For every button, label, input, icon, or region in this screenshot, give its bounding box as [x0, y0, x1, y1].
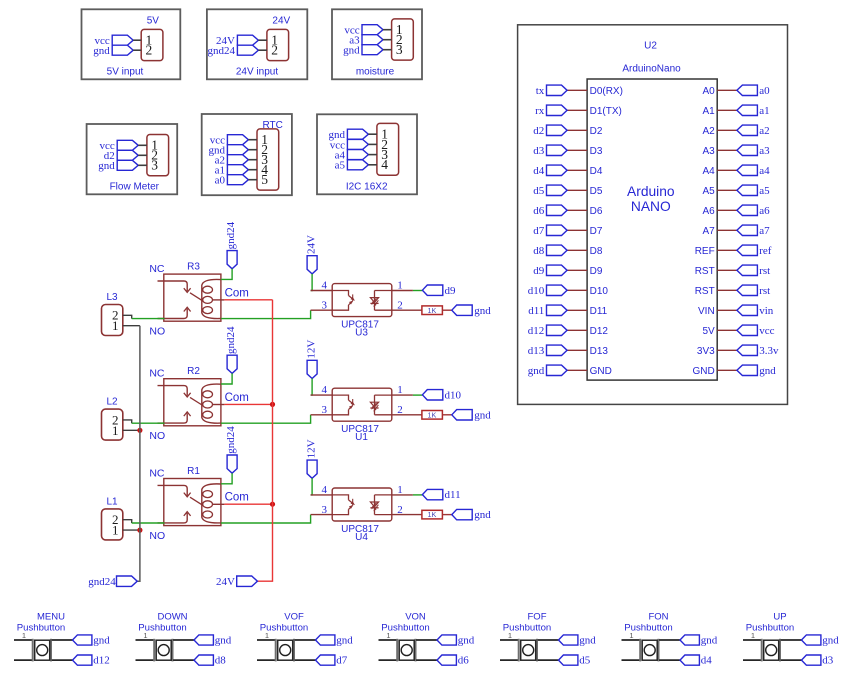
svg-text:d13: d13	[528, 345, 545, 357]
wire pin D5	[567, 189, 587, 191]
svg-text:VOF: VOF	[284, 611, 304, 622]
wire 1K to gnd	[442, 414, 451, 416]
wire pin 4	[248, 169, 257, 171]
wire pin D9	[567, 269, 587, 271]
pushbutton VON contacts	[396, 639, 398, 662]
wire pin REF	[717, 249, 737, 251]
transistor inside U3	[332, 291, 348, 296]
pushbutton DOWN body	[156, 640, 171, 660]
svg-text:d4: d4	[533, 165, 545, 177]
wire pin 2	[258, 49, 267, 51]
wire FOF left bottom	[500, 659, 519, 661]
svg-text:gnd: gnd	[215, 635, 232, 647]
net flag a1	[227, 165, 248, 175]
wire 12V to opto pin4	[311, 478, 313, 495]
svg-text:gnd: gnd	[474, 305, 491, 317]
svg-text:1: 1	[397, 484, 403, 496]
net flag d6	[547, 205, 568, 215]
svg-text:A3: A3	[702, 146, 715, 157]
net flag 12V	[307, 360, 317, 378]
svg-text:3: 3	[322, 404, 328, 416]
svg-text:12V: 12V	[306, 340, 318, 359]
pushbutton UP body	[764, 640, 779, 660]
svg-text:gnd: gnd	[474, 409, 491, 421]
net flag d9	[547, 265, 568, 275]
wire Com to 24V bus	[224, 299, 272, 301]
wire pin 5	[248, 179, 257, 181]
net flag 3.3v	[737, 345, 758, 355]
wire FON left bottom	[622, 659, 641, 661]
svg-text:L3: L3	[106, 292, 118, 303]
wire pin 3	[383, 49, 392, 51]
relay R3 box	[164, 274, 221, 321]
relay R2 moving contact	[190, 397, 202, 405]
net flag 24V bottom	[237, 576, 258, 586]
svg-text:24V: 24V	[272, 16, 290, 27]
relay R2 NO contact	[158, 413, 188, 423]
wire pin D2	[567, 129, 587, 131]
net flag d13	[547, 345, 568, 355]
wire VON left top	[379, 639, 398, 641]
wire pin D12	[567, 329, 587, 331]
wire pin RST	[717, 289, 737, 291]
svg-text:4: 4	[322, 384, 328, 396]
wire pin D13	[567, 349, 587, 351]
svg-text:rx: rx	[535, 105, 545, 117]
LED inside U3	[374, 291, 376, 311]
svg-text:d11: d11	[528, 305, 544, 317]
wire VON left bottom	[379, 659, 398, 661]
svg-text:a3: a3	[759, 145, 770, 157]
wire opto pin1 to d11	[413, 494, 423, 496]
net flag gnd	[452, 410, 472, 420]
net flag gnd24	[227, 455, 237, 473]
pushbutton DOWN button circle	[158, 645, 169, 656]
svg-text:d9: d9	[445, 285, 457, 297]
pushbutton VON button circle	[401, 645, 412, 656]
svg-text:d11: d11	[445, 489, 461, 501]
wire MENU right top	[52, 639, 73, 641]
net flag gnd	[547, 365, 568, 375]
svg-text:D1(TX): D1(TX)	[590, 106, 622, 117]
wire pin 1	[138, 144, 147, 146]
svg-text:D0(RX): D0(RX)	[590, 86, 623, 97]
svg-text:5V: 5V	[147, 16, 160, 27]
net flag gnd	[347, 129, 368, 139]
svg-text:Arduino: Arduino	[627, 184, 675, 199]
svg-text:U2: U2	[644, 40, 657, 51]
wire pin A2	[717, 129, 737, 131]
wire to relay NO	[132, 422, 165, 424]
wire pin D7	[567, 229, 587, 231]
pin 1 of U3	[392, 290, 413, 292]
svg-text:D13: D13	[590, 346, 609, 357]
net flag gnd	[452, 509, 472, 519]
wire opto pin1 to d10	[413, 394, 423, 396]
svg-text:gnd: gnd	[759, 365, 776, 377]
svg-text:a0: a0	[759, 85, 770, 97]
svg-text:12V: 12V	[306, 439, 318, 458]
svg-text:d2: d2	[533, 125, 544, 137]
svg-text:1: 1	[22, 631, 26, 640]
wire UP right top	[781, 639, 802, 641]
net flag gnd	[117, 160, 138, 170]
net flag vin	[737, 305, 758, 315]
net flag d5	[547, 185, 568, 195]
svg-text:d7: d7	[533, 225, 545, 237]
pushbutton FOF button circle	[523, 645, 534, 656]
wire pin A5	[717, 189, 737, 191]
wire pin 5V	[717, 329, 737, 331]
svg-text:D10: D10	[590, 286, 609, 297]
net flag gnd	[437, 635, 456, 645]
wire pin D3	[567, 149, 587, 151]
svg-text:gnd: gnd	[528, 365, 545, 377]
junction on gnd24 bus	[137, 528, 142, 533]
resistor 1K	[422, 411, 443, 420]
pin 3 of U3	[311, 309, 333, 311]
svg-text:NC: NC	[149, 263, 165, 275]
net flag d10	[547, 285, 568, 295]
connector module box RTC	[202, 114, 292, 195]
svg-text:d12: d12	[528, 325, 545, 337]
net flag gnd	[680, 635, 699, 645]
svg-text:gnd: gnd	[701, 635, 718, 647]
svg-text:3: 3	[322, 299, 328, 311]
svg-text:1: 1	[112, 318, 119, 333]
wire pin D1(TX)	[567, 109, 587, 111]
svg-text:L2: L2	[106, 397, 118, 408]
op-amp U2 ArduinoNano body	[587, 79, 717, 380]
net flag gnd	[73, 635, 92, 645]
svg-text:NO: NO	[149, 326, 165, 338]
wire gnd24 vertical bus	[137, 326, 140, 582]
svg-text:A0: A0	[702, 86, 715, 97]
svg-text:D7: D7	[590, 226, 603, 237]
relay R3 NO contact	[158, 309, 188, 319]
svg-text:vin: vin	[759, 305, 774, 317]
svg-text:d4: d4	[701, 655, 713, 667]
transistor inside U1	[332, 395, 348, 400]
svg-text:gnd24: gnd24	[88, 576, 116, 588]
svg-text:D12: D12	[590, 326, 609, 337]
net flag gnd	[559, 635, 578, 645]
pin 4 of U1	[311, 394, 333, 396]
wire MENU left bottom	[14, 659, 33, 661]
svg-text:3: 3	[396, 42, 403, 57]
net flag rst	[737, 265, 758, 275]
arduino module outer box	[518, 25, 788, 405]
svg-text:d8: d8	[215, 655, 227, 667]
wire pin 3	[138, 164, 147, 166]
net flag a2	[737, 125, 758, 135]
svg-text:gnd: gnd	[98, 160, 115, 172]
wire L1 pin1 stub	[123, 529, 140, 531]
net flag vcc	[227, 135, 248, 145]
net flag 24V	[307, 256, 317, 274]
svg-text:NO: NO	[149, 530, 165, 542]
svg-text:Flow Meter: Flow Meter	[110, 181, 160, 192]
svg-text:D9: D9	[590, 266, 603, 277]
svg-text:L1: L1	[106, 496, 118, 507]
svg-text:D2: D2	[590, 126, 603, 137]
pushbutton VOF contacts	[275, 639, 277, 662]
net flag d11	[422, 489, 442, 499]
wire FOF right bottom	[538, 659, 559, 661]
net flag vcc	[112, 35, 133, 45]
wire pin 4	[368, 164, 377, 166]
optocoupler U4 body	[332, 488, 392, 521]
svg-text:24V: 24V	[306, 235, 318, 254]
svg-text:3: 3	[322, 504, 328, 516]
wire Com to 24V bus	[224, 403, 272, 405]
wire L3 pin1 stub	[123, 325, 140, 327]
net flag d12	[73, 655, 92, 665]
relay R1 moving contact	[190, 497, 202, 505]
wire Com to 24V bus	[224, 503, 272, 505]
svg-text:2: 2	[397, 404, 403, 416]
connector L2	[102, 409, 123, 440]
net flag d3	[802, 655, 821, 665]
wire pin 1	[133, 39, 141, 41]
svg-text:5V input: 5V input	[107, 66, 144, 77]
svg-text:1: 1	[265, 631, 269, 640]
svg-text:D3: D3	[590, 146, 603, 157]
junction on gnd24 bus	[137, 428, 142, 433]
wire pin A1	[717, 109, 737, 111]
net flag tx	[547, 85, 568, 95]
svg-text:a2: a2	[759, 125, 769, 137]
wire 24V to opto pin4	[311, 274, 313, 291]
svg-text:1: 1	[112, 423, 119, 438]
LED inside U4	[374, 495, 376, 515]
wire 12V to opto pin4	[311, 379, 313, 396]
net flag vcc	[362, 25, 383, 35]
svg-text:1: 1	[386, 631, 390, 640]
svg-text:a5: a5	[759, 185, 770, 197]
svg-text:3.3v: 3.3v	[759, 345, 779, 357]
svg-text:moisture: moisture	[356, 66, 395, 77]
svg-text:VIN: VIN	[698, 306, 715, 317]
svg-text:a7: a7	[759, 225, 770, 237]
wire pin D0(RX)	[567, 89, 587, 91]
wire pin A3	[717, 149, 737, 151]
relay R3 Com pin	[212, 299, 224, 301]
svg-text:NC: NC	[149, 468, 165, 480]
svg-text:DOWN: DOWN	[157, 611, 187, 622]
svg-text:d5: d5	[579, 655, 591, 667]
wire MENU right bottom	[52, 659, 73, 661]
svg-text:FOF: FOF	[528, 611, 547, 622]
net flag rst	[737, 285, 758, 295]
wire FON right bottom	[659, 659, 680, 661]
pushbutton DOWN contacts	[153, 639, 155, 662]
wire pin 2	[383, 39, 392, 41]
svg-text:2: 2	[397, 299, 403, 311]
svg-text:tx: tx	[536, 85, 545, 97]
pushbutton MENU body	[35, 640, 50, 660]
wire pin 1	[248, 139, 257, 141]
svg-text:D4: D4	[590, 166, 603, 177]
svg-text:RST: RST	[695, 266, 715, 277]
net flag gnd	[194, 635, 213, 645]
optocoupler U3 body	[332, 284, 392, 317]
svg-text:U3: U3	[355, 328, 368, 339]
connector module box Flow Meter	[87, 124, 178, 194]
net flag a6	[737, 205, 758, 215]
relay R1 coil	[202, 484, 221, 523]
wire pin 2	[248, 149, 257, 151]
pin 4 of U3	[311, 290, 333, 292]
svg-text:RST: RST	[695, 286, 715, 297]
pin 4 of U4	[311, 494, 333, 496]
svg-text:gnd: gnd	[93, 45, 110, 57]
svg-text:gnd: gnd	[458, 635, 475, 647]
wire DOWN left bottom	[136, 659, 155, 661]
transistor inside U4	[332, 495, 348, 500]
net flag d3	[547, 145, 568, 155]
svg-text:d3: d3	[533, 145, 545, 157]
pin 3 of U4	[311, 514, 333, 516]
net flag gnd	[362, 45, 383, 55]
svg-text:d10: d10	[445, 389, 462, 401]
net flag a4	[347, 150, 368, 160]
svg-text:d12: d12	[93, 655, 110, 667]
net flag d7	[316, 655, 335, 665]
wire to relay NO	[132, 318, 165, 320]
svg-text:D5: D5	[590, 186, 603, 197]
svg-text:R1: R1	[187, 466, 200, 477]
svg-text:gnd: gnd	[474, 509, 491, 521]
net flag d5	[559, 655, 578, 665]
wire VOF right bottom	[295, 659, 316, 661]
svg-text:gnd24: gnd24	[225, 326, 237, 354]
svg-text:gnd24: gnd24	[225, 426, 237, 454]
svg-text:ref: ref	[759, 245, 772, 257]
svg-text:D11: D11	[590, 306, 608, 317]
svg-text:gnd24: gnd24	[225, 221, 237, 249]
svg-text:ArduinoNano: ArduinoNano	[622, 63, 681, 74]
svg-text:1K: 1K	[428, 306, 437, 315]
wire FON right top	[659, 639, 680, 641]
pushbutton VOF button circle	[280, 645, 291, 656]
pin 1 of U4	[392, 494, 413, 496]
svg-text:A4: A4	[702, 166, 715, 177]
wire pin A0	[717, 89, 737, 91]
svg-text:Com: Com	[225, 287, 249, 299]
net flag gnd	[802, 635, 821, 645]
svg-text:A2: A2	[702, 126, 715, 137]
pushbutton FON button circle	[644, 645, 655, 656]
net flag d2	[117, 150, 138, 160]
svg-text:d10: d10	[528, 285, 545, 297]
relay R3 moving contact	[190, 293, 202, 301]
pushbutton FON contacts	[639, 639, 641, 662]
svg-text:a5: a5	[335, 160, 346, 172]
svg-text:D6: D6	[590, 206, 603, 217]
svg-text:rst: rst	[759, 265, 770, 277]
svg-text:1: 1	[112, 523, 119, 538]
wire 24V vertical bus	[257, 300, 272, 581]
svg-text:rst: rst	[759, 285, 770, 297]
net flag d11	[547, 305, 568, 315]
wire UP left bottom	[743, 659, 762, 661]
svg-text:gnd: gnd	[336, 635, 353, 647]
relay R1 box	[164, 479, 221, 526]
svg-text:2: 2	[271, 43, 278, 58]
svg-text:U1: U1	[355, 432, 368, 443]
net flag rx	[547, 105, 568, 115]
net flag ref	[737, 245, 758, 255]
pushbutton FOF contacts	[518, 639, 520, 662]
net flag a5	[347, 160, 368, 170]
wire pin D11	[567, 309, 587, 311]
relay R3 NC contact	[158, 281, 188, 291]
net flag d9	[422, 285, 442, 295]
pushbutton UP contacts	[761, 639, 763, 662]
net flag gnd24	[237, 45, 258, 55]
wire pin A4	[717, 169, 737, 171]
svg-text:d5: d5	[533, 185, 545, 197]
pushbutton VOF body	[278, 640, 293, 660]
svg-text:NANO: NANO	[631, 199, 671, 214]
relay R1 Com pin	[212, 503, 224, 505]
svg-text:Com: Com	[225, 492, 249, 504]
svg-text:D8: D8	[590, 246, 603, 257]
wire L3 pin2 stub	[123, 315, 132, 318]
net flag a4	[737, 165, 758, 175]
svg-text:I2C 16X2: I2C 16X2	[346, 181, 388, 192]
wire DOWN right top	[173, 639, 194, 641]
svg-text:VON: VON	[405, 611, 426, 622]
net flag a7	[737, 225, 758, 235]
pushbutton UP button circle	[766, 645, 777, 656]
connector body moisture	[392, 19, 414, 60]
svg-text:gnd: gnd	[579, 635, 596, 647]
wire pin RST	[717, 269, 737, 271]
net flag gnd24 bottom	[117, 576, 138, 586]
svg-text:1: 1	[508, 631, 512, 640]
net flag 24V	[237, 35, 258, 45]
wire pin 2	[133, 49, 141, 51]
relay R2 NC contact	[158, 386, 188, 396]
net flag d6	[437, 655, 456, 665]
pin 2 of U4	[392, 514, 422, 516]
svg-text:4: 4	[322, 280, 328, 292]
connector module box moisture	[332, 9, 422, 79]
net flag a2	[227, 155, 248, 165]
wire VON right top	[416, 639, 437, 641]
wire pin D10	[567, 289, 587, 291]
connector module box 5V input	[82, 9, 181, 79]
svg-text:NO: NO	[149, 430, 165, 442]
net flag gnd	[227, 145, 248, 155]
wire pin 3	[248, 159, 257, 161]
pin 2 of U1	[392, 414, 422, 416]
wire VON right bottom	[416, 659, 437, 661]
svg-text:a6: a6	[759, 205, 770, 217]
svg-text:Com: Com	[225, 392, 249, 404]
pushbutton MENU contacts	[32, 639, 34, 662]
svg-text:a0: a0	[215, 175, 226, 187]
connector body 5V input	[141, 29, 163, 60]
net flag vcc	[737, 325, 758, 335]
wire coil to gnd24	[221, 373, 232, 384]
svg-text:d8: d8	[533, 245, 545, 257]
svg-text:2: 2	[397, 504, 403, 516]
net flag vcc	[117, 140, 138, 150]
svg-text:R3: R3	[187, 262, 200, 273]
